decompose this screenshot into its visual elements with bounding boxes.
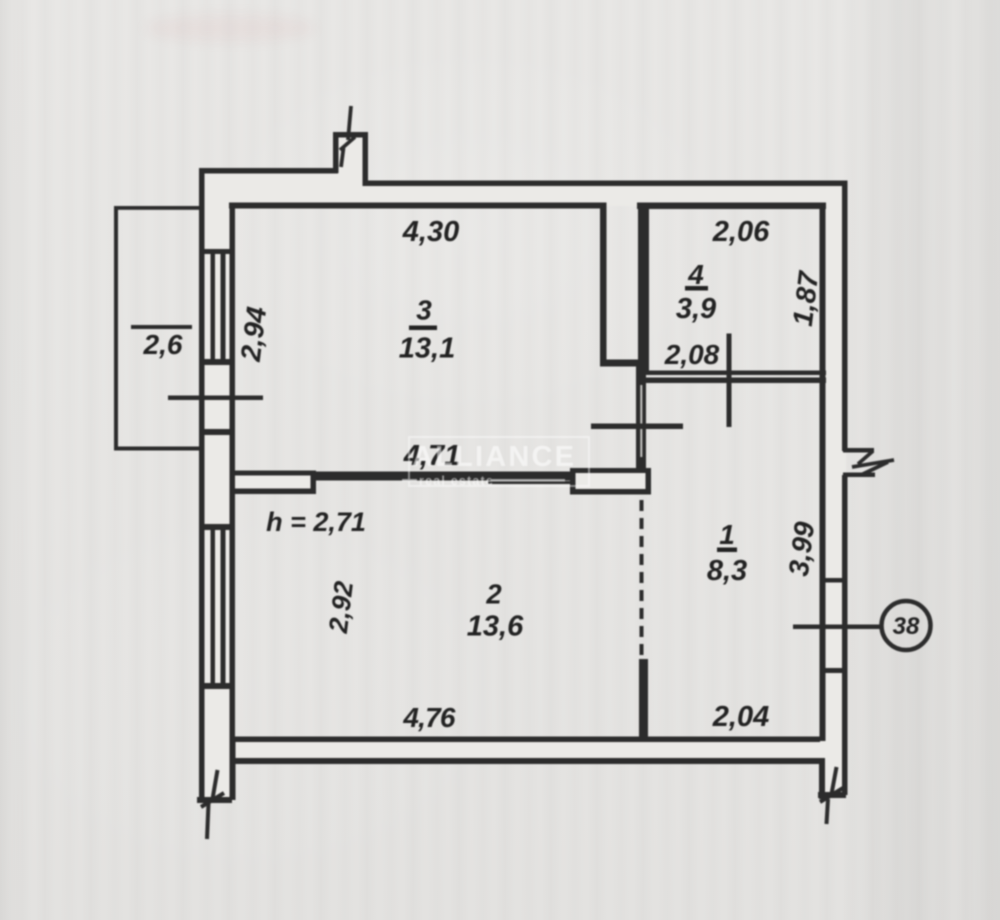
window W2 top cap [199,524,235,530]
svg-text:2,06: 2,06 [712,216,770,248]
wall: top inner over room 4 [637,203,826,210]
balcony bottom edge [114,447,200,451]
wall: left outer [199,168,205,803]
wall: top outer left [199,168,338,174]
wall: bottom inner [234,737,820,743]
dashed line room1/room2 [640,500,644,655]
partition band: right segment bottom line [570,489,651,495]
partition band: right segment top line [570,468,651,473]
svg-text:13,6: 13,6 [467,611,524,643]
balcony top edge [114,206,200,210]
svg-text:3,9: 3,9 [676,293,716,325]
window tick right wall lower [821,668,844,673]
dimension tick on left wall [168,396,263,401]
svg-text:ALLIANCE: ALLIANCE [412,441,576,473]
break mark: right wall [843,448,874,453]
svg-text:1,87: 1,87 [787,269,825,328]
dimension line to apartment number [793,625,882,630]
wall: vent protrusion right side [363,132,369,186]
wall: vent protrusion top [333,132,368,138]
window W1 bottom cap [199,359,235,365]
svg-text:2,6: 2,6 [143,329,183,360]
wall: bottom-right extension (outer line turns down) [819,758,825,799]
wall: bottom-right cap [818,792,846,798]
window W3 (wide bar between room2 and room3) [316,472,570,481]
wall: right outer lower [842,475,848,795]
balcony left edge [114,206,118,450]
partition band: left segment bottom line [234,489,316,495]
svg-text:2,04: 2,04 [712,701,769,733]
wall cores (paper-white fills) [200,134,846,802]
wall: room 4 left / hall partition [638,204,649,372]
wall: jog room3/room4 [600,360,639,367]
window tick right wall upper [821,578,844,583]
svg-text:4,30: 4,30 [402,216,459,248]
watermark box [402,437,589,488]
wall stub room1/room2 [639,659,648,742]
svg-text:38: 38 [893,613,920,640]
wall: right outer upper [842,181,848,451]
wall: room 3 right [600,203,607,366]
wall: room 4 bottom bottom line [643,378,826,384]
svg-text:1: 1 [719,519,735,550]
wall: vent protrusion left side [333,132,339,173]
partition band: left segment right cap [311,471,317,495]
door leaf horizontal (hall door) [591,424,683,430]
wall: bottom outer [234,758,822,764]
break mark: bottom-left [201,770,224,839]
svg-text:4: 4 [687,259,704,290]
wall cap above balcony door [199,429,235,435]
faint stamp bleed-through [145,14,315,42]
window W1 top cap [199,249,235,254]
apartment number circle 38 [882,601,931,650]
wall: top inner over room 3 [229,203,607,209]
break mark: top wall [340,106,355,167]
window W1 glass lines [211,251,216,363]
watermark rules [402,479,417,482]
wall: left inner [230,203,236,742]
svg-text:2,08: 2,08 [664,339,720,370]
partition band: right segment left cap [570,468,576,495]
svg-text:h = 2,71: h = 2,71 [266,507,366,537]
svg-text:3: 3 [416,295,432,326]
door leaf vertical (room 4 door) [727,334,732,428]
break mark: bottom-right [820,767,843,824]
white core of hall partition [640,385,642,457]
wall: bottom-left extension inner line [230,741,236,800]
svg-text:13,1: 13,1 [399,333,455,365]
svg-text:2,94: 2,94 [235,305,273,364]
wall: bottom-left extension cap [197,797,232,803]
window W2 bottom cap [199,683,235,689]
wall: room 4 bottom top line [643,371,826,376]
svg-text:8,3: 8,3 [707,555,747,587]
wall: top outer right [363,181,848,187]
wall: right inner [820,203,826,741]
window W2 glass lines [211,528,216,685]
partition band room2/room3: left segment top line [234,471,316,476]
svg-text:3,99: 3,99 [783,520,820,578]
balcony label overline [131,325,192,329]
partition band: right segment right cap [646,468,652,495]
svg-text:2: 2 [485,579,502,610]
svg-text:2,92: 2,92 [323,579,359,635]
svg-text:real estate: real estate [419,474,494,488]
svg-text:4,76: 4,76 [402,702,456,733]
